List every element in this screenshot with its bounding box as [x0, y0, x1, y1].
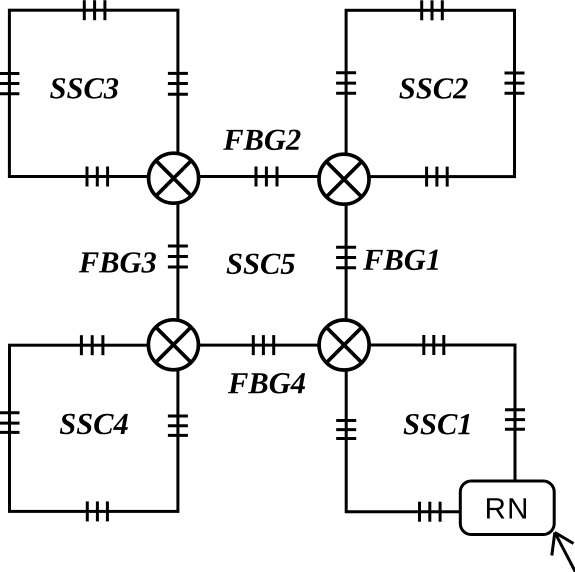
- wire FBG2 link (U1 to U2): [172, 175, 346, 178]
- SSC3 left-edge fiber ticks: [0, 74, 19, 94]
- SSC3 top-edge fiber ticks: [84, 0, 105, 20]
- label RN: [487, 498, 526, 518]
- label FBG2: [223, 130, 300, 150]
- ring SSC3 (top-left loop wire): [9, 10, 178, 176]
- SSC3 right-edge fiber ticks: [168, 73, 188, 94]
- SSC2 bottom-edge fiber ticks: [427, 167, 448, 187]
- SSC4 top-edge fiber ticks: [81, 335, 103, 355]
- RN remote node box: [460, 481, 554, 535]
- FBG4 link fiber ticks: [253, 335, 273, 355]
- SSC4 bottom-edge fiber ticks: [87, 501, 107, 521]
- label SSC1: [404, 414, 470, 434]
- coupler U1 (SSC5 top-left): [149, 153, 199, 203]
- SSC1 top-edge fiber ticks: [424, 335, 444, 355]
- SSC3 bottom-edge fiber ticks: [87, 167, 108, 187]
- wire FBG1 link (U2 to U4): [345, 178, 348, 346]
- wire FBG4 link (U3 to U4): [172, 344, 346, 347]
- SSC1 left-edge fiber ticks: [336, 421, 356, 439]
- ring SSC1 (bottom-right loop wire, open at RN node corner): [346, 345, 515, 512]
- coupler U3 (SSC5 bottom-left): [148, 320, 198, 370]
- FBG1 link fiber ticks: [336, 247, 356, 267]
- SSC2 right-edge fiber ticks: [505, 73, 525, 93]
- label SSC5: [227, 254, 295, 274]
- SSC2 left-edge fiber ticks: [336, 73, 356, 94]
- FBG2 link fiber ticks: [256, 167, 277, 187]
- label FBG1: [363, 250, 438, 270]
- label SSC4: [60, 414, 128, 434]
- ring SSC4 (bottom-left loop wire): [10, 345, 178, 511]
- coupler U4 (SSC5 bottom-right): [319, 320, 369, 370]
- label SSC2: [399, 78, 467, 98]
- SSC4 left-edge fiber ticks: [0, 413, 20, 433]
- label FBG3: [79, 252, 156, 272]
- label FBG4: [228, 373, 305, 393]
- label SSC3: [50, 78, 118, 98]
- wire FBG3 link (U1 to U3): [176, 177, 179, 346]
- SSC4 right-edge fiber ticks: [168, 416, 188, 435]
- arrow pointing at RN node corner: [552, 532, 575, 572]
- SSC2 top-edge fiber ticks: [422, 0, 443, 20]
- SSC1 bottom-edge fiber ticks: [420, 502, 441, 522]
- ring SSC2 (top-right loop wire): [346, 10, 514, 176]
- FBG3 link fiber ticks: [168, 246, 188, 267]
- SSC1 right-edge fiber ticks: [505, 410, 525, 430]
- coupler U2 (SSC5 top-right): [319, 154, 369, 204]
